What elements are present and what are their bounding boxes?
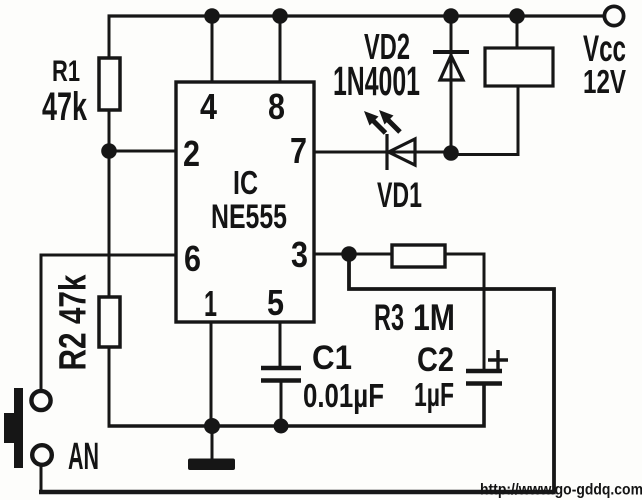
svg-text:1: 1 bbox=[204, 283, 217, 324]
LED VD1 light arrow 2 bbox=[379, 110, 400, 132]
ground bar bbox=[188, 459, 235, 471]
wire node A to pin 2 bbox=[109, 150, 176, 153]
wire top supply rail bbox=[108, 14, 605, 17]
ground stub bbox=[211, 426, 214, 459]
terminal Vcc bbox=[604, 6, 623, 25]
pushbutton AN actuator bar bbox=[14, 388, 23, 468]
wire R1 top to rail bbox=[108, 16, 111, 59]
svg-text:VD1: VD1 bbox=[377, 176, 422, 215]
wire pin 8 to rail bbox=[279, 16, 282, 82]
op-amp U1 IC NE555 box bbox=[176, 82, 314, 322]
svg-text:AN: AN bbox=[68, 436, 99, 478]
svg-text:6: 6 bbox=[184, 238, 201, 279]
svg-text:8: 8 bbox=[268, 86, 285, 127]
svg-text:7: 7 bbox=[290, 130, 307, 171]
junction dot rail pin8 bbox=[272, 8, 288, 24]
svg-text:3: 3 bbox=[291, 234, 308, 275]
svg-text:0.01µF: 0.01µF bbox=[303, 377, 384, 414]
wire button AN bottom terminal to bottom wire bbox=[40, 466, 43, 492]
pushbutton AN terminal bottom bbox=[32, 445, 52, 465]
svg-text:12V: 12V bbox=[583, 63, 626, 100]
svg-text:C1: C1 bbox=[312, 339, 352, 377]
wire relay top to rail bbox=[516, 16, 519, 48]
svg-text:C2: C2 bbox=[417, 341, 454, 379]
wire pin 3 to R3 bbox=[314, 253, 392, 256]
wire pin 4 to rail bbox=[211, 16, 214, 82]
capacitor C2 bbox=[466, 371, 502, 384]
wire C1 bottom to ground rail bbox=[280, 382, 283, 426]
resistor R1 bbox=[99, 58, 120, 110]
wire pin 5 to C1 bbox=[279, 322, 282, 366]
wire R2 bottom to ground rail bbox=[108, 347, 111, 426]
junction dot rail VD2 bbox=[443, 8, 459, 24]
resistor R2 bbox=[99, 297, 120, 347]
junction dot rail pin4 bbox=[204, 8, 220, 24]
svg-text:R1: R1 bbox=[52, 55, 80, 88]
junction dot rail relay bbox=[509, 8, 525, 24]
wire node A down to R2 bbox=[108, 151, 111, 297]
wire relay bottom to node B bbox=[451, 86, 518, 155]
wire pin 1 to ground rail bbox=[210, 322, 213, 426]
svg-text:http://www.go-gddq.com: http://www.go-gddq.com bbox=[480, 482, 642, 499]
capacitor C1 bbox=[261, 368, 301, 381]
pushbutton AN terminal top bbox=[31, 391, 50, 410]
svg-text:1M: 1M bbox=[413, 297, 455, 338]
wire bottom return bbox=[39, 490, 556, 494]
wire VD2 top to rail bbox=[450, 16, 453, 153]
diode VD2 bbox=[433, 52, 469, 80]
junction dot C1 ground bbox=[274, 419, 289, 434]
pushbutton AN cap bbox=[4, 413, 15, 443]
diode VD1 LED bbox=[387, 134, 415, 170]
svg-text:5: 5 bbox=[267, 282, 284, 323]
svg-text:1N4001: 1N4001 bbox=[333, 58, 420, 104]
junction dot node B bbox=[443, 145, 459, 161]
svg-text:NE555: NE555 bbox=[211, 198, 287, 236]
LED VD1 light arrow 1 bbox=[364, 111, 386, 133]
svg-text:2: 2 bbox=[183, 133, 200, 174]
svg-text:R3: R3 bbox=[374, 297, 404, 338]
svg-text:1µF: 1µF bbox=[414, 376, 454, 413]
wire R1 bottom to node A bbox=[108, 110, 111, 151]
wire R3 right to C2 top bbox=[445, 254, 484, 370]
resistor R3 bbox=[392, 245, 445, 267]
svg-text:47k: 47k bbox=[42, 85, 88, 129]
wire pin 7 to node B through VD1 bbox=[314, 151, 451, 154]
wire ground rail bbox=[108, 384, 485, 426]
wire pin 6 to left rail bbox=[41, 255, 176, 390]
relay K1 coil box bbox=[485, 48, 553, 86]
junction dot node C pin3 bbox=[341, 246, 357, 262]
svg-text:R2 47k: R2 47k bbox=[53, 274, 95, 371]
junction dot pin1 ground bbox=[204, 418, 220, 434]
wire node C down and right to bottom wire bbox=[349, 254, 554, 492]
svg-text:IC: IC bbox=[233, 164, 258, 201]
junction dot node A bbox=[101, 143, 117, 159]
C2 plus sign bbox=[488, 350, 508, 370]
svg-text:4: 4 bbox=[200, 86, 217, 127]
